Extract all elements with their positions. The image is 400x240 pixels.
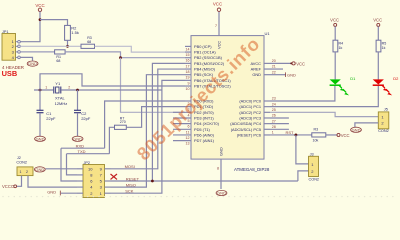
wire MISO net JP2 pin3 to chip PB5 pin19 <box>111 75 186 187</box>
svg-text:7: 7 <box>215 24 217 28</box>
wire D- (USB pin2) <box>20 45 81 47</box>
net label GND (JP2 pin2) <box>47 190 60 196</box>
svg-text:PD3 (INT1): PD3 (INT1) <box>194 115 214 120</box>
pin 21 AREF stub <box>264 68 270 70</box>
IC U1 ATMEGA8 body <box>191 31 270 159</box>
svg-text:(ADC5/SCL) PC5: (ADC5/SCL) PC5 <box>231 127 261 132</box>
wire VCC to R4 <box>334 26 336 40</box>
pin 28 (ADC5/SCL) PC5 stub <box>264 128 270 130</box>
grid dots <box>2 196 393 197</box>
wire R5 to LED D2 <box>377 52 379 80</box>
pin 10 PB7 stub <box>185 85 191 87</box>
svg-text:TXD: TXD <box>78 149 86 154</box>
pin 8 GND bottom stub <box>220 159 222 189</box>
svg-text:10: 10 <box>186 87 190 91</box>
svg-text:2: 2 <box>26 170 28 174</box>
node R2/D- junction <box>66 45 69 48</box>
svg-text:XTAL: XTAL <box>55 95 65 100</box>
svg-text:(ADC2) PC2: (ADC2) PC2 <box>239 110 261 115</box>
svg-text:PD7 (AIN1): PD7 (AIN1) <box>194 138 215 143</box>
connector JP1 USB header <box>2 30 20 60</box>
svg-text:21: 21 <box>272 65 276 69</box>
svg-text:VCC: VCC <box>35 3 44 8</box>
svg-text:U1: U1 <box>265 31 271 36</box>
svg-text:J3: J3 <box>310 152 314 156</box>
svg-text:AREF: AREF <box>251 67 262 72</box>
svg-text:10: 10 <box>88 166 93 171</box>
pin 14 PB0 stub <box>185 45 191 47</box>
svg-text:8: 8 <box>217 166 219 170</box>
wire AREF pin21 <box>270 68 283 70</box>
wire VCC to R5 <box>377 26 379 40</box>
wire J5 pin2 to GND <box>355 123 378 127</box>
pin 13 PD7 stub <box>173 140 191 142</box>
wire TXD up to R7 left <box>109 127 114 153</box>
svg-text:D2: D2 <box>393 76 399 81</box>
power VCC (R3 pullup) <box>337 133 350 138</box>
no-ERC cross JP2 pin7 <box>111 174 118 179</box>
pin 6 PD4 stub <box>173 123 191 125</box>
ground (J5 pin2) <box>351 127 362 132</box>
svg-text:22pF: 22pF <box>81 116 91 121</box>
svg-text:6: 6 <box>188 125 190 129</box>
wire R3 to VCC <box>326 134 337 136</box>
svg-text:PB0 (ICP): PB0 (ICP) <box>194 44 212 49</box>
wire XTAL2 loop to chip PB7 pin10 <box>40 74 185 90</box>
svg-text:(ADC1) PC1: (ADC1) PC1 <box>239 104 261 109</box>
wire PC4 pin27 <box>270 123 289 125</box>
wire TXD vertical to R7 <box>67 154 78 175</box>
wire VCC to JP1 pin1 <box>20 12 40 42</box>
svg-text:68: 68 <box>56 59 60 63</box>
svg-text:68: 68 <box>87 40 91 44</box>
power VCC (D2 column) <box>373 17 382 26</box>
svg-text:Y1: Y1 <box>55 81 61 86</box>
resistor R2 1.5k <box>65 25 79 40</box>
wire R2 bottom to D- net <box>67 40 69 46</box>
ground (J2) <box>34 167 45 172</box>
node VCC/R2 junction <box>39 18 42 21</box>
svg-text:D1: D1 <box>350 76 356 81</box>
svg-text:VCC: VCC <box>373 17 382 22</box>
pin 18 PB4 stub <box>185 68 191 70</box>
wire PC5 pin28 <box>270 128 289 130</box>
node RST junction <box>295 134 298 137</box>
svg-text:AVCC: AVCC <box>250 61 261 66</box>
node RESET junction <box>151 180 154 183</box>
wire PC2 pin25 to J5 pin1 <box>270 112 378 116</box>
wire GND label to JP2 pin2 <box>61 192 77 194</box>
wire J2 pin1 down to VCCO <box>17 176 22 187</box>
svg-text:SCK: SCK <box>125 189 134 194</box>
svg-text:19: 19 <box>186 76 190 80</box>
wire GND pin22 to GND label <box>270 74 286 76</box>
svg-text:24: 24 <box>272 102 276 106</box>
capacitor C1 22pF <box>37 90 56 136</box>
svg-text:GND: GND <box>47 190 56 195</box>
svg-text:22: 22 <box>272 70 276 74</box>
svg-text:PD4 (XCK/T0): PD4 (XCK/T0) <box>194 121 220 126</box>
svg-text:R3: R3 <box>314 128 319 132</box>
svg-text:CON2: CON2 <box>378 129 389 133</box>
svg-text:PB1 (OC1A): PB1 (OC1A) <box>194 50 216 55</box>
wire RESET net JP2 pin5 to J3 <box>111 180 298 182</box>
connector J3 CON2 <box>309 152 320 181</box>
wire RST to J3 pin1 <box>296 135 309 164</box>
svg-text:1: 1 <box>20 170 22 174</box>
svg-text:(ADC4/SDA) PC4: (ADC4/SDA) PC4 <box>230 121 262 126</box>
svg-text:1: 1 <box>272 131 274 135</box>
svg-text:VCC: VCC <box>341 133 350 138</box>
svg-text:(ADC0) PC0: (ADC0) PC0 <box>239 99 261 104</box>
power VCC (D1 column) <box>330 17 339 26</box>
svg-text:RST: RST <box>286 130 295 135</box>
pin 23 (ADC0) PC0 stub <box>264 100 270 102</box>
wire RESET to J3 pin2 <box>298 171 309 181</box>
svg-text:GND: GND <box>252 72 261 77</box>
pin 5 PD3 stub <box>173 117 191 119</box>
svg-text:26: 26 <box>272 114 276 118</box>
pin 16 PB2 stub <box>185 57 191 59</box>
svg-text:MISO: MISO <box>126 182 136 187</box>
connector JP2 ISP header <box>77 161 111 198</box>
pin 3 PD1 stub <box>185 106 191 108</box>
connector J2 CON2 <box>16 156 33 176</box>
svg-text:CON2: CON2 <box>309 177 320 181</box>
svg-text:J5: J5 <box>384 108 388 112</box>
pin 1 (RESET) PC6 stub <box>264 134 270 136</box>
svg-text:2: 2 <box>68 86 70 90</box>
svg-text:23: 23 <box>272 97 276 101</box>
resistor R7 270 <box>115 116 127 129</box>
svg-text:16: 16 <box>186 59 190 63</box>
pin 11 PD5 stub <box>173 128 191 130</box>
wire RESET vertical to chip PB3 pin17 <box>152 63 185 181</box>
wire R7 right to chip PD1 pin3 <box>126 107 185 128</box>
svg-text:14: 14 <box>186 47 190 51</box>
svg-text:(ADC3) PC3: (ADC3) PC3 <box>239 115 261 120</box>
svg-text:12: 12 <box>186 136 190 140</box>
svg-text:J2: J2 <box>17 156 21 160</box>
ground (USB pin4) <box>27 61 38 66</box>
svg-text:28: 28 <box>272 125 276 129</box>
ground (C1) <box>35 136 46 141</box>
pin 12 PD6 stub <box>173 134 191 136</box>
wire MOSI net JP2 pin9 to chip PB4 pin18 <box>111 69 186 169</box>
wire D+ branch to chip PD2 pin4 <box>121 58 186 113</box>
pin 22 GND stub <box>264 74 270 76</box>
ground (chip pin 8) <box>216 190 227 195</box>
pin 19 PB5 stub <box>185 74 191 76</box>
svg-text:RESET: RESET <box>126 176 140 181</box>
wire J2 pin2 down to JP2 pin4 <box>28 176 77 188</box>
svg-text:1.5k: 1.5k <box>71 30 79 35</box>
svg-text:20: 20 <box>272 59 276 63</box>
power VCC (top-left) <box>35 3 44 12</box>
wire PC1 pin24 to LED D2 <box>270 86 378 107</box>
svg-text:ATMEGA8_DIP28: ATMEGA8_DIP28 <box>234 167 270 172</box>
svg-text:18: 18 <box>186 70 190 74</box>
crystal Y1 XTAL 12MHz <box>45 81 70 106</box>
svg-text:GND: GND <box>219 147 224 156</box>
pin 26 (ADC3) PC3 stub <box>264 117 270 119</box>
svg-text:VCC: VCC <box>296 61 305 66</box>
net label GND (pin22) <box>286 72 296 77</box>
pin 20 AVCC stub <box>264 62 270 64</box>
svg-text:15: 15 <box>186 53 190 57</box>
svg-text:1k: 1k <box>382 46 386 50</box>
wire junction to R2 top <box>40 20 68 26</box>
pin 7 VCC top stub <box>218 12 220 36</box>
svg-text:17: 17 <box>186 64 190 68</box>
wire JP1 pin4 to GND <box>20 57 32 60</box>
resistor R5 1k <box>376 40 386 52</box>
svg-text:GND: GND <box>287 72 296 77</box>
pin 25 (ADC2) PC2 stub <box>264 111 270 113</box>
svg-text:(RESET) PC6: (RESET) PC6 <box>237 132 261 137</box>
LED D2 red <box>373 76 399 95</box>
wire TXD horizontal <box>67 153 110 155</box>
wire crystal net right to SCK vertical <box>61 89 161 91</box>
svg-text:9: 9 <box>188 81 190 85</box>
wire RXD horizontal <box>61 147 105 149</box>
svg-text:VCCO: VCCO <box>2 184 15 189</box>
node D+ branch <box>119 56 122 59</box>
ground (C2) <box>72 136 83 141</box>
node crystal right <box>76 89 79 92</box>
connector J5 CON2 <box>378 108 389 134</box>
wire crystal net left <box>34 89 53 91</box>
svg-text:22pF: 22pF <box>46 116 56 121</box>
svg-text:1k: 1k <box>339 46 343 50</box>
wire SCK net JP2 pin1 to chip PB6 pin9 <box>111 80 186 193</box>
svg-text:RXD: RXD <box>76 144 85 149</box>
wire D- to chip PB1 pin15 <box>95 46 186 52</box>
wire R4 to LED D1 <box>334 52 336 80</box>
resistor R3 68 <box>81 36 95 48</box>
svg-text:12MHz: 12MHz <box>55 101 68 106</box>
svg-text:VCC: VCC <box>330 17 339 22</box>
wire RXD up to chip PD0 pin2 <box>105 101 185 148</box>
resistor R1 68 <box>55 50 66 63</box>
power VCC (AVCC) <box>290 61 305 66</box>
node crystal left <box>39 89 42 92</box>
resistor R4 1k <box>333 40 343 52</box>
wire RXD down to JP2 pin6 <box>61 148 77 181</box>
pin 9 PB6 stub <box>185 79 191 81</box>
svg-text:VCC: VCC <box>213 1 222 6</box>
svg-text:MOSI: MOSI <box>125 164 135 169</box>
capacitor C2 22pF <box>74 90 91 136</box>
svg-text:CON2: CON2 <box>16 160 27 164</box>
wire J2 GND to JP2 pin10 <box>46 168 78 170</box>
svg-text:1: 1 <box>45 86 47 90</box>
pin 4 PD2 stub <box>173 111 191 113</box>
svg-text:PD6 (AIN0): PD6 (AIN0) <box>194 132 215 137</box>
resistor R3 10k <box>312 128 326 143</box>
pin 2 PD0 stub <box>185 100 191 102</box>
wire PC3 pin26 <box>270 117 289 119</box>
LED D1 green <box>330 76 357 95</box>
svg-text:11: 11 <box>186 130 190 134</box>
wire D+ (USB pin3) <box>20 51 54 53</box>
pin 17 PB3 stub <box>185 62 191 64</box>
svg-text:270: 270 <box>120 120 126 124</box>
pin 27 (ADC4/SDA) PC4 stub <box>264 123 270 125</box>
svg-text:PB2 (SS/OC1B): PB2 (SS/OC1B) <box>194 55 223 60</box>
svg-text:PD5 (T1): PD5 (T1) <box>194 127 210 132</box>
svg-text:25: 25 <box>272 108 276 112</box>
wire PC6 pin1 RST to R3 <box>270 134 312 136</box>
pin 15 PB1 stub <box>185 51 191 53</box>
pin 24 (ADC1) PC1 stub <box>264 106 270 108</box>
power VCCO <box>2 184 17 189</box>
svg-text:USB: USB <box>2 69 18 78</box>
svg-text:13: 13 <box>186 142 190 146</box>
wire PC0 pin23 to LED D1 <box>270 86 335 101</box>
wire D+ to chip PB2 pin16 <box>65 52 185 58</box>
svg-text:VCC: VCC <box>217 41 222 49</box>
wire AVCC pin20 to VCC <box>270 62 291 64</box>
svg-text:27: 27 <box>272 119 276 123</box>
svg-text:10k: 10k <box>313 139 319 143</box>
